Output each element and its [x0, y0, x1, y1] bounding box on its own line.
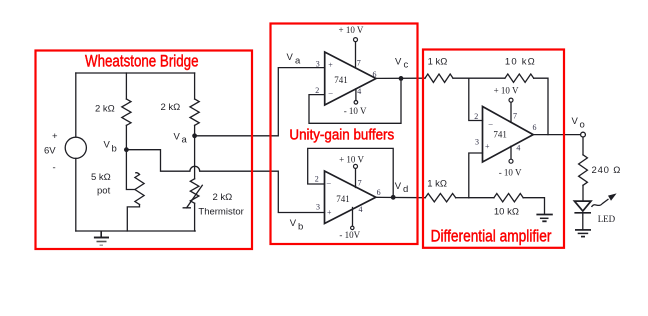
svg-text:2 kΩ: 2 kΩ — [161, 102, 181, 113]
svg-text:V: V — [572, 116, 579, 127]
svg-text:d: d — [403, 184, 408, 195]
svg-text:741: 741 — [493, 130, 507, 140]
svg-text:2 kΩ: 2 kΩ — [95, 104, 115, 115]
svg-text:pot: pot — [97, 186, 111, 197]
op-amp U1 741 (top unity-gain buffer) — [315, 52, 376, 105]
LED D1 — [574, 193, 616, 230]
svg-text:Unity-gain buffers: Unity-gain buffers — [289, 127, 394, 143]
svg-text:- 10V: - 10V — [339, 230, 360, 240]
svg-text:a: a — [295, 56, 301, 67]
svg-text:10 kΩ: 10 kΩ — [494, 207, 519, 218]
thermistor RT 2kΩ — [183, 179, 244, 231]
svg-text:V: V — [104, 140, 111, 151]
node Va — [174, 132, 198, 146]
supply -10V U1 pin 4 — [344, 89, 367, 116]
supply +10V U1 pin 7 — [339, 25, 364, 68]
wire: U3 pin3 junction — [469, 153, 483, 198]
svg-text:1 kΩ: 1 kΩ — [428, 57, 448, 68]
source V1 6V — [44, 73, 86, 231]
svg-text:V: V — [174, 132, 181, 143]
svg-text:o: o — [580, 120, 585, 131]
svg-text:c: c — [404, 60, 409, 71]
svg-text:7: 7 — [357, 59, 361, 68]
wire: U2 output — [376, 196, 425, 198]
svg-text:V: V — [287, 52, 294, 63]
svg-text:- 10 V: - 10 V — [499, 168, 522, 178]
resistor R7 10kΩ (to ground) — [469, 194, 545, 218]
svg-text:7: 7 — [358, 179, 362, 188]
resistor R4 1kΩ (top input) — [425, 57, 469, 83]
potentiometer R3 5kΩ pot — [91, 150, 144, 231]
ground (LED) — [575, 230, 591, 237]
svg-text:4: 4 — [357, 87, 361, 96]
wire: U2 feedback loop (output to pin 2) — [308, 148, 394, 197]
svg-text:741: 741 — [336, 194, 350, 204]
svg-text:-: - — [53, 163, 56, 174]
svg-text:V: V — [290, 218, 297, 229]
svg-text:741: 741 — [334, 75, 348, 85]
svg-text:V: V — [395, 57, 402, 68]
svg-text:b: b — [298, 222, 303, 233]
svg-text:10 kΩ: 10 kΩ — [505, 57, 536, 68]
resistor R6 1kΩ (bottom input) — [425, 178, 469, 202]
supply +10V U3 pin 7 — [494, 85, 519, 122]
box: Wheatstone Bridge — [36, 51, 253, 250]
svg-text:+: + — [328, 60, 333, 69]
svg-text:3: 3 — [316, 203, 320, 212]
svg-text:2: 2 — [315, 175, 319, 184]
svg-text:3: 3 — [475, 137, 479, 146]
supply -10V U2 pin 4 — [339, 208, 360, 241]
resistor R8 240Ω — [579, 137, 621, 201]
svg-text:a: a — [182, 135, 188, 146]
svg-text:3: 3 — [316, 60, 320, 69]
svg-text:+: + — [485, 142, 490, 151]
svg-text:+: + — [327, 208, 332, 217]
node Vc — [395, 57, 409, 81]
svg-text:2: 2 — [474, 112, 478, 121]
svg-text:4: 4 — [516, 143, 520, 152]
svg-text:6V: 6V — [44, 146, 56, 157]
svg-text:6: 6 — [533, 123, 537, 132]
svg-text:Differential amplifier: Differential amplifier — [431, 228, 552, 246]
resistor R1 2kΩ (left bridge arm) — [95, 73, 131, 150]
wire: node Vb to buffer U2 input (with crossover hop) — [126, 150, 324, 213]
wire: U3 output to Vo — [533, 134, 580, 136]
node Vo (open terminal) — [572, 116, 586, 137]
wire: U1 output — [376, 77, 425, 79]
svg-text:LED: LED — [598, 214, 616, 224]
ground (bridge) — [94, 231, 109, 245]
resistor R2 2kΩ (right bridge arm) — [161, 73, 200, 136]
supply -10V U3 pin 4 — [499, 146, 522, 177]
wire: node Va to buffer U1 input — [195, 68, 325, 136]
wire: bridge bottom rail — [76, 230, 195, 232]
label Va (buffer input) — [287, 52, 302, 67]
box: Unity-gain buffers — [271, 24, 418, 245]
node Vb — [104, 140, 129, 155]
svg-text:+: + — [52, 131, 58, 142]
resistor R5 10kΩ (feedback) — [469, 57, 548, 135]
svg-text:- 10 V: - 10 V — [344, 106, 367, 116]
svg-text:Wheatstone Bridge: Wheatstone Bridge — [85, 53, 199, 71]
box: Differential amplifier — [423, 50, 564, 248]
svg-text:Thermistor: Thermistor — [198, 207, 243, 218]
svg-text:7: 7 — [513, 111, 517, 120]
svg-text:4: 4 — [359, 205, 363, 214]
wire: bridge top rail — [76, 72, 195, 74]
supply +10V U2 pin 7 — [339, 155, 364, 188]
wire: junction to pin 2 — [469, 78, 483, 120]
svg-text:V: V — [395, 181, 402, 192]
label Vb (buffer input) — [290, 218, 303, 233]
svg-text:6: 6 — [373, 70, 377, 79]
svg-text:2 kΩ: 2 kΩ — [213, 192, 233, 203]
svg-text:1 kΩ: 1 kΩ — [427, 178, 447, 189]
svg-text:+ 10 V: + 10 V — [494, 85, 519, 95]
op-amp U2 741 (bottom unity-gain buffer) — [315, 171, 381, 224]
node Vd — [391, 181, 408, 200]
svg-text:6: 6 — [377, 188, 381, 197]
svg-text:+ 10 V: + 10 V — [339, 25, 364, 35]
wire: U1 feedback loop (output to pin 2) — [309, 78, 401, 123]
svg-text:b: b — [112, 144, 117, 155]
svg-text:240 Ω: 240 Ω — [592, 165, 622, 176]
ground (diff amp) — [536, 215, 552, 222]
svg-text:+ 10 V: + 10 V — [339, 155, 364, 165]
op-amp U3 741 (differential amplifier) — [474, 107, 536, 163]
wire: node Va down to thermistor — [194, 136, 196, 179]
svg-text:2: 2 — [315, 86, 319, 95]
svg-text:5 kΩ: 5 kΩ — [91, 172, 111, 183]
